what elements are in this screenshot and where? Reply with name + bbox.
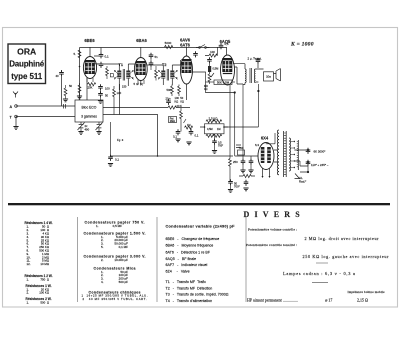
svg-text:0,5: 0,5	[225, 42, 229, 46]
svg-text:490: 490	[85, 127, 90, 131]
svg-text:6BA6 - Moyenne fréquence: 6BA6 - Moyenne fréquence	[166, 244, 214, 248]
svg-text:6AT6 - Détectrice 1 re B: 6AT6 - Détectrice 1 re BF	[166, 250, 211, 254]
svg-text:12.: 12.	[27, 262, 31, 266]
svg-text:KΩ KΩ: KΩ KΩ	[175, 99, 185, 103]
svg-text:5n: 5n	[155, 55, 159, 59]
svg-text:1.: 1.	[96, 224, 99, 228]
svg-text:50: 50	[105, 94, 109, 98]
svg-text:Rad.*: Rad.*	[299, 180, 307, 184]
svg-text:3 gammes: 3 gammes	[81, 115, 97, 119]
svg-text:750 Ω: 750 Ω	[40, 277, 49, 281]
svg-text:0,5 MF: 0,5 MF	[113, 224, 123, 228]
svg-text:2 MΩ log. droit avec interrupt: 2 MΩ log. droit avec interrupteur	[305, 236, 380, 241]
svg-text:T2 - Transfo MF Détection: T2 - Transfo MF Détection	[166, 286, 213, 290]
svg-text:A: A	[10, 105, 13, 109]
svg-text:0,1: 0,1	[115, 158, 119, 162]
svg-text:0,1: 0,1	[105, 55, 110, 59]
svg-text:HP aimant permanent ..........: HP aimant permanent ...............	[247, 297, 298, 302]
svg-text:20 K: 20 K	[177, 104, 183, 108]
svg-text:2,5 KΩ: 2,5 KΩ	[209, 116, 219, 120]
svg-text:100: 100	[105, 87, 110, 91]
svg-text:2.: 2.	[101, 258, 104, 262]
svg-text:250: 250	[233, 160, 238, 164]
svg-text:1.: 1.	[27, 301, 30, 305]
svg-text:0,1 MF: 0,1 MF	[119, 245, 129, 249]
svg-text:Potentiomètre volume contrôle: Potentiomètre volume contrôle :	[248, 228, 297, 232]
svg-text:1.: 1.	[27, 277, 30, 281]
svg-text:2.: 2.	[27, 291, 30, 295]
svg-text:1M: 1M	[217, 128, 220, 131]
svg-text:20K: 20K	[88, 86, 93, 90]
svg-text:6Z4 - Valve: 6Z4 - Valve	[166, 270, 190, 274]
svg-text:Impédance bobine mobile: Impédance bobine mobile	[348, 290, 386, 294]
svg-text:Condensateurs chimiques: Condensateurs chimiques	[89, 290, 141, 294]
svg-text:500 pF: 500 pF	[119, 280, 129, 284]
svg-text:6AF7 - Indicateur visuel: 6AF7 - Indicateur visuel	[166, 263, 208, 267]
svg-text:250 KΩ log. gauche avec interr: 250 KΩ log. gauche avec interrupteur	[303, 254, 390, 259]
svg-text:Potentiomètre contrôle tonalit: Potentiomètre contrôle tonalité :	[246, 243, 297, 247]
svg-text:10a: 10a	[266, 75, 271, 79]
svg-text:T1 - Transfo MF Trafic: T1 - Transfo MF Trafic	[166, 280, 207, 284]
svg-text:6BE6: 6BE6	[84, 38, 95, 43]
svg-text:DIVERS: DIVERS	[244, 210, 305, 219]
svg-text:700*: 700*	[218, 144, 223, 147]
svg-text:1M: 1M	[187, 124, 190, 127]
svg-text:ORA: ORA	[17, 47, 36, 57]
svg-text:6,3: 6,3	[255, 143, 259, 147]
svg-text:0,1: 0,1	[173, 135, 177, 139]
svg-text:Condensateurs Mica: Condensateurs Mica	[94, 267, 136, 271]
svg-text:0,5M: 0,5M	[207, 128, 213, 131]
svg-text:50: 50	[69, 84, 73, 88]
svg-text:6AT6: 6AT6	[180, 43, 190, 48]
svg-text:Condensateurs papier 1.500 V.: Condensateurs papier 1.500 V.	[84, 232, 146, 236]
svg-text:5.: 5.	[74, 52, 77, 56]
svg-text:Fg: Fg	[117, 138, 121, 142]
svg-text:40: 40	[56, 74, 60, 78]
svg-text:10 MΩ: 10 MΩ	[40, 262, 49, 266]
svg-text:5 nF (k): 5 nF (k)	[134, 82, 144, 86]
svg-text:0,1: 0,1	[195, 134, 199, 138]
svg-text:50K 0,5M: 50K 0,5M	[217, 81, 230, 85]
svg-text:0,5M: 0,5M	[213, 67, 219, 71]
svg-text:150: 150	[122, 85, 127, 89]
svg-text:100 KΩ: 100 KΩ	[39, 291, 50, 295]
svg-text:K = 1000: K = 1000	[290, 42, 314, 48]
svg-text:Condensateur variable (2x490): Condensateur variable (2x490) pF	[166, 224, 236, 229]
svg-text:100: 100	[210, 50, 215, 54]
svg-text:6BA6: 6BA6	[136, 38, 147, 43]
svg-text:4.: 4.	[101, 280, 104, 284]
svg-text:700*: 700*	[234, 184, 241, 188]
svg-text:6K 3000*: 6K 3000*	[314, 150, 327, 154]
svg-text:type 511: type 511	[11, 72, 43, 81]
svg-text:Bloc ECO: Bloc ECO	[82, 106, 97, 110]
svg-text:⌀ 17: ⌀ 17	[325, 297, 332, 302]
svg-text:700: 700	[239, 146, 244, 150]
svg-text:2MΩ: 2MΩ	[170, 120, 175, 123]
svg-text:T4 - Transfo d’alimentatio: T4 - Transfo d’alimentation	[166, 299, 213, 303]
svg-text:5000: 5000	[165, 41, 172, 45]
svg-text:5.: 5.	[101, 245, 104, 249]
svg-text:130: 130	[117, 91, 122, 95]
svg-text:500: 500	[167, 88, 172, 92]
svg-text:6AQ5 - BF finale: 6AQ5 - BF finale	[166, 257, 197, 261]
svg-text:500 Ω: 500 Ω	[40, 301, 49, 305]
svg-text:6BE6 - Changeur de fréquen: 6BE6 - Changeur de fréquence	[166, 237, 220, 241]
svg-text:10.000 μF: 10.000 μF	[114, 258, 128, 262]
svg-text:T3 - Transfo de sortie. Im: T3 - Transfo de sortie. Impéd. 7000Ω	[166, 293, 229, 297]
svg-text:Dauphiné: Dauphiné	[9, 60, 45, 69]
svg-text:6X4: 6X4	[261, 136, 269, 141]
svg-text:2 40 MF 350/385 V TUBUL. CAR: 2 40 MF 350/385 V TUBUL. CART.	[83, 297, 147, 301]
svg-text:110* + 245* ~: 110* + 245* ~	[311, 163, 329, 167]
